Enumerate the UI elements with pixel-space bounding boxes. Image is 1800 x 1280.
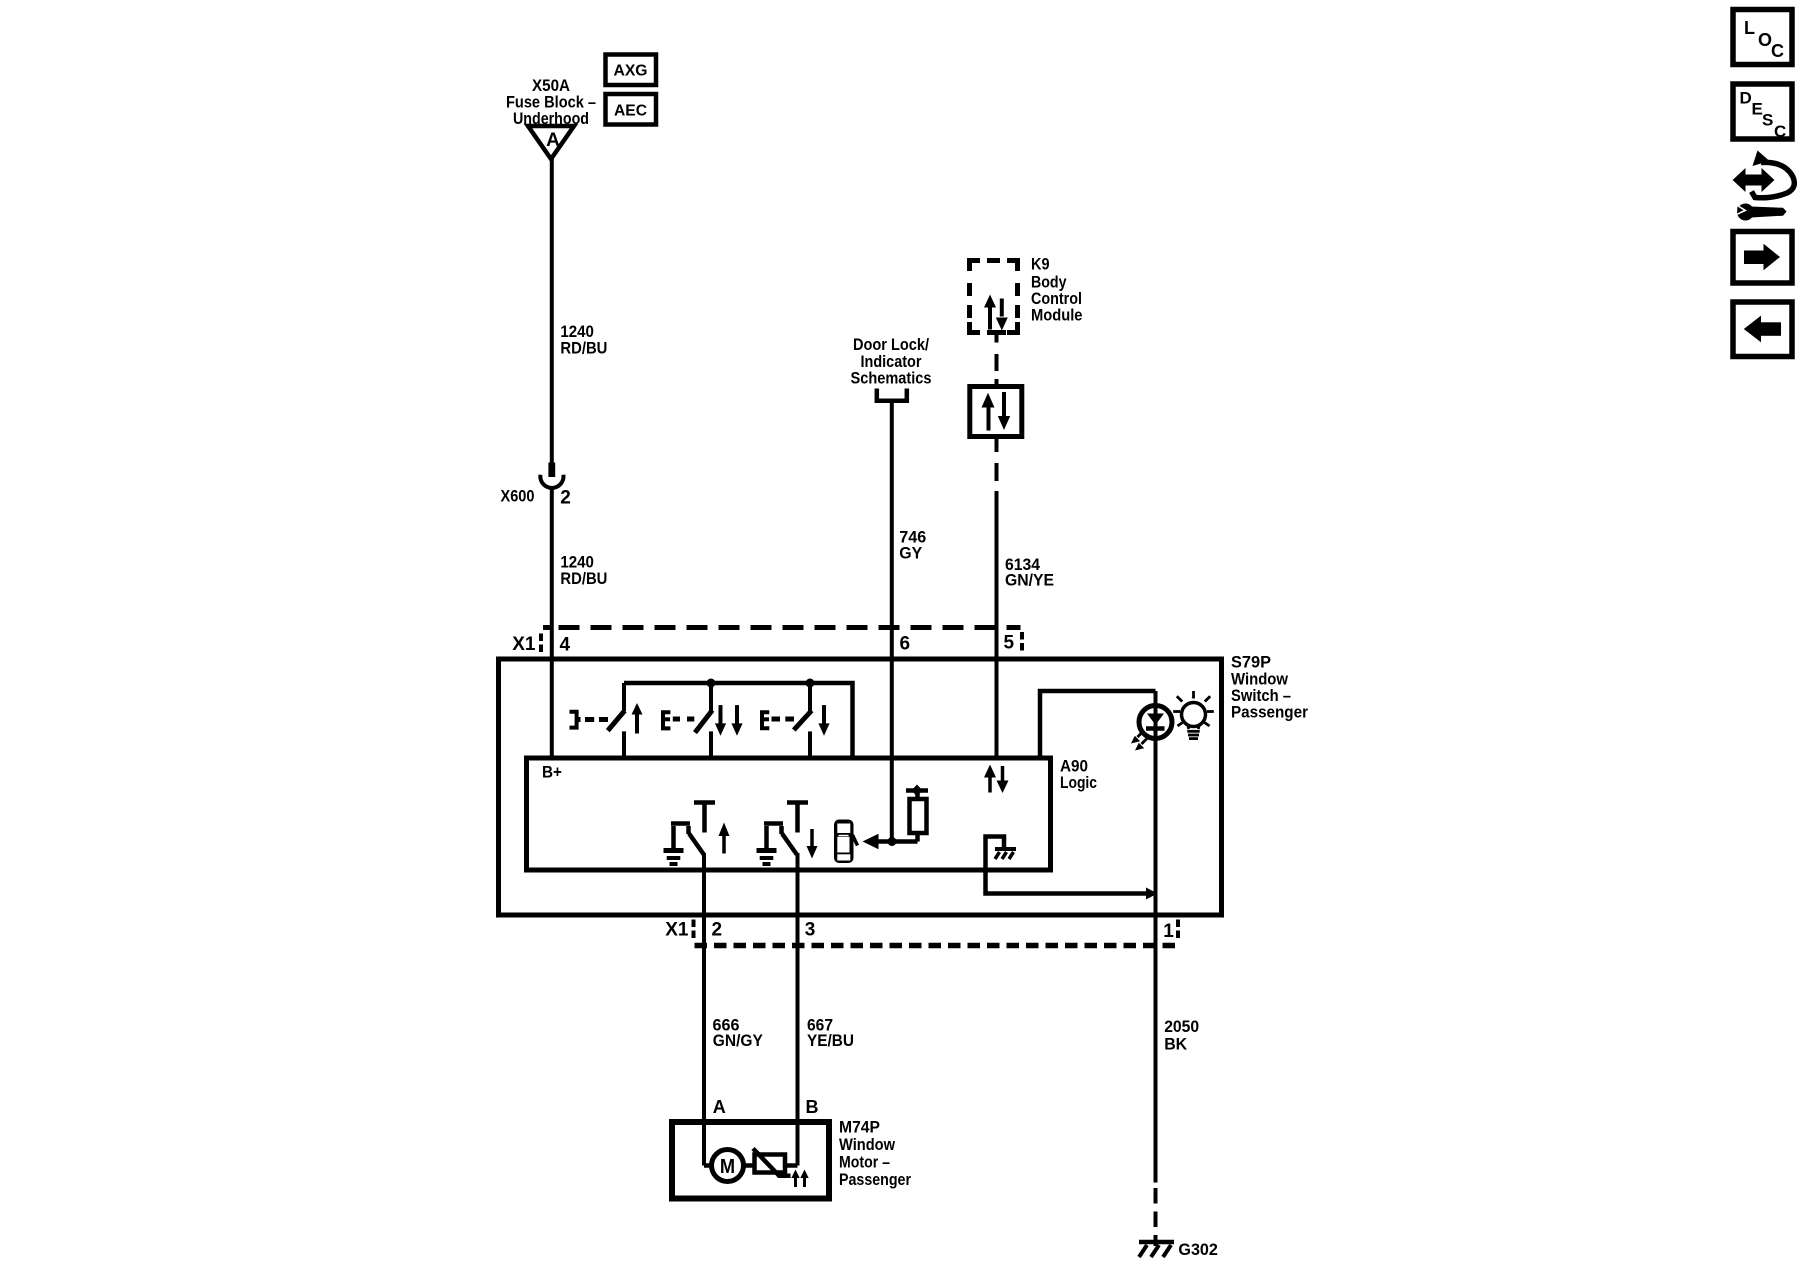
junction node wire746/arrow bbox=[888, 837, 897, 846]
X1 bottom right tick bbox=[1176, 920, 1180, 939]
svg-text:Passenger: Passenger bbox=[1231, 703, 1308, 722]
output driver Q2 blade bbox=[782, 834, 797, 855]
switch SW1 up arrow bbox=[635, 713, 639, 734]
internal chassis ground loop bbox=[986, 837, 1147, 894]
wire 2050 BK dashed lower segment bbox=[1154, 1188, 1158, 1246]
svg-text:K9: K9 bbox=[1031, 255, 1050, 274]
switch SW3 lower stub bbox=[808, 731, 812, 760]
svg-text:RD/BU: RD/BU bbox=[560, 569, 607, 588]
switch SW2 lower stub bbox=[709, 731, 713, 760]
command box up arrow bbox=[987, 405, 991, 431]
LED cathode bar bbox=[1146, 726, 1165, 731]
arrow pointing at car bbox=[877, 839, 918, 844]
label Door Lock / Indicator Schematics bbox=[851, 335, 932, 387]
bulb icon bbox=[1182, 703, 1206, 727]
svg-text:GN/GY: GN/GY bbox=[713, 1031, 764, 1050]
wire label 746 GY bbox=[899, 527, 926, 562]
svg-text:6: 6 bbox=[900, 634, 911, 655]
arrow into LED wire bbox=[1146, 888, 1158, 900]
svg-text:GN/YE: GN/YE bbox=[1005, 571, 1054, 590]
svg-text:4: 4 bbox=[560, 635, 571, 656]
window up/down command symbol box bbox=[970, 387, 1022, 437]
wire label 2050 BK bbox=[1164, 1017, 1199, 1054]
rail junction node (branch 2) bbox=[707, 679, 716, 688]
switch module S79P outer box bbox=[499, 659, 1222, 915]
A90 pin5 up arrow bbox=[988, 776, 992, 793]
wire label 1240 RD/BU (lower) bbox=[560, 553, 607, 589]
K9 down arrow bbox=[1000, 299, 1004, 317]
LED diode triangle bbox=[1147, 714, 1164, 726]
LED supply loop bbox=[1040, 691, 1156, 760]
switch SW1 lower stub bbox=[622, 731, 626, 760]
svg-text:B: B bbox=[806, 1097, 819, 1117]
motor connection stub A bbox=[704, 1163, 712, 1168]
switch SW2 actuator bracket E bbox=[663, 712, 670, 728]
output driver Q2 down arrow bbox=[810, 829, 814, 847]
svg-text:AXG: AXG bbox=[614, 63, 648, 80]
motor to breaker link bbox=[744, 1163, 755, 1168]
breaker reset arrows bbox=[794, 1176, 797, 1187]
svg-text:Logic: Logic bbox=[1060, 773, 1097, 792]
svg-text:X600: X600 bbox=[501, 487, 535, 506]
fuse block label X50A Fuse Block - Underhood bbox=[506, 76, 596, 128]
icon wrench bbox=[1737, 204, 1754, 221]
wire label 667 YE/BU bbox=[807, 1016, 854, 1051]
output driver Q1 grounded bracket bbox=[671, 824, 690, 850]
svg-text:5: 5 bbox=[1004, 633, 1015, 654]
wire 1240 RD/BU upper segment bbox=[550, 158, 554, 463]
svg-text:RD/BU: RD/BU bbox=[560, 338, 607, 357]
svg-text:D: D bbox=[1740, 89, 1752, 108]
connector X600 female cup bbox=[540, 475, 563, 488]
svg-text:GY: GY bbox=[899, 543, 923, 562]
svg-text:O: O bbox=[1758, 30, 1772, 50]
svg-text:C: C bbox=[1774, 122, 1786, 141]
switch SW1 linkage dashes bbox=[585, 717, 594, 722]
off-page connector (door lock) bbox=[877, 389, 907, 401]
wire 6134 GN/YE dashed then solid bbox=[995, 437, 999, 453]
switch SW2 linkage dashes bbox=[673, 717, 680, 722]
A90 pin5 down arrow bbox=[1001, 766, 1005, 781]
svg-text:3: 3 bbox=[805, 919, 816, 940]
svg-text:2: 2 bbox=[560, 488, 571, 509]
label S79P Window Switch - Passenger bbox=[1231, 653, 1308, 722]
connector X600 male pin bbox=[548, 463, 555, 478]
svg-text:X1: X1 bbox=[665, 919, 689, 940]
X1 bottom left tick bbox=[692, 920, 696, 939]
svg-text:A: A bbox=[713, 1097, 726, 1117]
switch top rail bbox=[624, 683, 853, 760]
switch SW2 (express down) upper stub bbox=[709, 683, 713, 711]
thermal circuit breaker bbox=[755, 1155, 786, 1173]
rail junction node (branch 3) bbox=[806, 679, 815, 688]
motor M74P box bbox=[672, 1122, 829, 1199]
switch SW1 (window up) upper stub bbox=[622, 683, 626, 711]
svg-text:Window: Window bbox=[839, 1135, 896, 1154]
icon swap bent arrow bbox=[1753, 151, 1770, 167]
LED wire through / 2050 BK upper bbox=[1154, 691, 1158, 1183]
output driver Q2 (down) fixed contact T bbox=[787, 800, 808, 805]
svg-text:G302: G302 bbox=[1178, 1240, 1218, 1259]
code box AEC bbox=[606, 94, 657, 125]
motor circle M bbox=[712, 1150, 744, 1182]
output driver Q1 (up) fixed contact T bbox=[694, 800, 715, 805]
svg-text:1: 1 bbox=[1163, 921, 1174, 942]
LED emission arrows bbox=[1138, 731, 1144, 737]
wire 667 YE/BU (motor down) bbox=[796, 853, 800, 1166]
switch SW3 (window down) upper stub bbox=[808, 683, 812, 711]
fuse block connector triangle A bbox=[528, 126, 574, 159]
icon box right arrow bbox=[1733, 232, 1792, 284]
wire label 6134 GN/YE bbox=[1005, 555, 1054, 590]
switch SW3 down arrow bbox=[822, 705, 826, 724]
switch SW2 blade bbox=[695, 710, 712, 732]
svg-text:B+: B+ bbox=[542, 763, 562, 782]
svg-text:X1: X1 bbox=[512, 634, 536, 655]
svg-text:AEC: AEC bbox=[614, 102, 647, 119]
wire 746 GY bbox=[890, 403, 894, 842]
wire label 1240 RD/BU (upper) bbox=[560, 322, 607, 358]
internal chassis ground symbol bbox=[995, 847, 1016, 851]
svg-text:L: L bbox=[1744, 18, 1755, 38]
svg-text:Module: Module bbox=[1031, 305, 1083, 324]
svg-text:2050: 2050 bbox=[1164, 1017, 1199, 1036]
output driver Q2 grounded bracket bbox=[764, 824, 783, 850]
svg-text:M: M bbox=[720, 1156, 735, 1178]
switch SW3 linkage dashes bbox=[772, 717, 781, 722]
svg-text:Motor –: Motor – bbox=[839, 1152, 890, 1171]
icon box left arrow bbox=[1733, 302, 1792, 357]
module K9 Body Control Module dashed box bbox=[967, 258, 1020, 335]
svg-text:A: A bbox=[546, 130, 560, 151]
A90 logic box bbox=[527, 758, 1051, 870]
icon swap double arrow bbox=[1733, 168, 1775, 192]
svg-text:M74P: M74P bbox=[839, 1117, 880, 1136]
label K9 Body Control Module bbox=[1031, 255, 1083, 325]
ground G302 symbol bbox=[1139, 1240, 1174, 1245]
label M74P Window Motor - Passenger bbox=[839, 1117, 911, 1189]
connector X1 bottom dashed line bbox=[695, 943, 1177, 949]
switch SW2 double down arrows bbox=[719, 705, 723, 724]
switch SW3 actuator bracket E bbox=[762, 712, 769, 728]
switch SW1 actuator bracket bbox=[570, 712, 577, 728]
dashed wire from K9 to arrow box bbox=[995, 335, 999, 343]
wire label 666 GN/GY bbox=[713, 1016, 764, 1051]
X1 top right tick bbox=[1020, 632, 1024, 651]
command box down arrow bbox=[1002, 392, 1006, 416]
svg-text:BK: BK bbox=[1164, 1035, 1188, 1054]
output driver Q1 up arrow bbox=[722, 834, 726, 854]
svg-text:2: 2 bbox=[712, 919, 723, 940]
svg-text:Schematics: Schematics bbox=[851, 368, 932, 387]
LED circle bbox=[1139, 706, 1172, 739]
label A90 Logic bbox=[1060, 756, 1097, 792]
motor connection stub B bbox=[785, 1163, 798, 1168]
svg-text:Passenger: Passenger bbox=[839, 1170, 911, 1189]
icon box DESC bbox=[1733, 84, 1792, 139]
output driver Q1 blade bbox=[689, 834, 704, 855]
svg-text:YE/BU: YE/BU bbox=[807, 1031, 854, 1050]
icon box LOC bbox=[1733, 10, 1792, 65]
code box AXG bbox=[606, 55, 657, 86]
connector X1 top dashed line bbox=[543, 625, 554, 630]
resistor (window position sense) bbox=[910, 799, 927, 833]
svg-text:S: S bbox=[1762, 111, 1773, 130]
output driver Q2 ground symbol bbox=[757, 848, 777, 853]
X1 top left tick bbox=[539, 634, 543, 653]
wire 1240 RD/BU lower segment bbox=[550, 490, 554, 761]
output driver Q1 ground symbol bbox=[664, 848, 684, 853]
K9 up arrow bbox=[988, 302, 992, 330]
svg-text:C: C bbox=[1771, 41, 1784, 61]
car icon bbox=[834, 820, 854, 864]
wire 666 GN/GY (motor up) bbox=[702, 853, 706, 1166]
switch SW3 blade bbox=[794, 711, 812, 731]
switch SW1 blade bbox=[608, 711, 625, 731]
